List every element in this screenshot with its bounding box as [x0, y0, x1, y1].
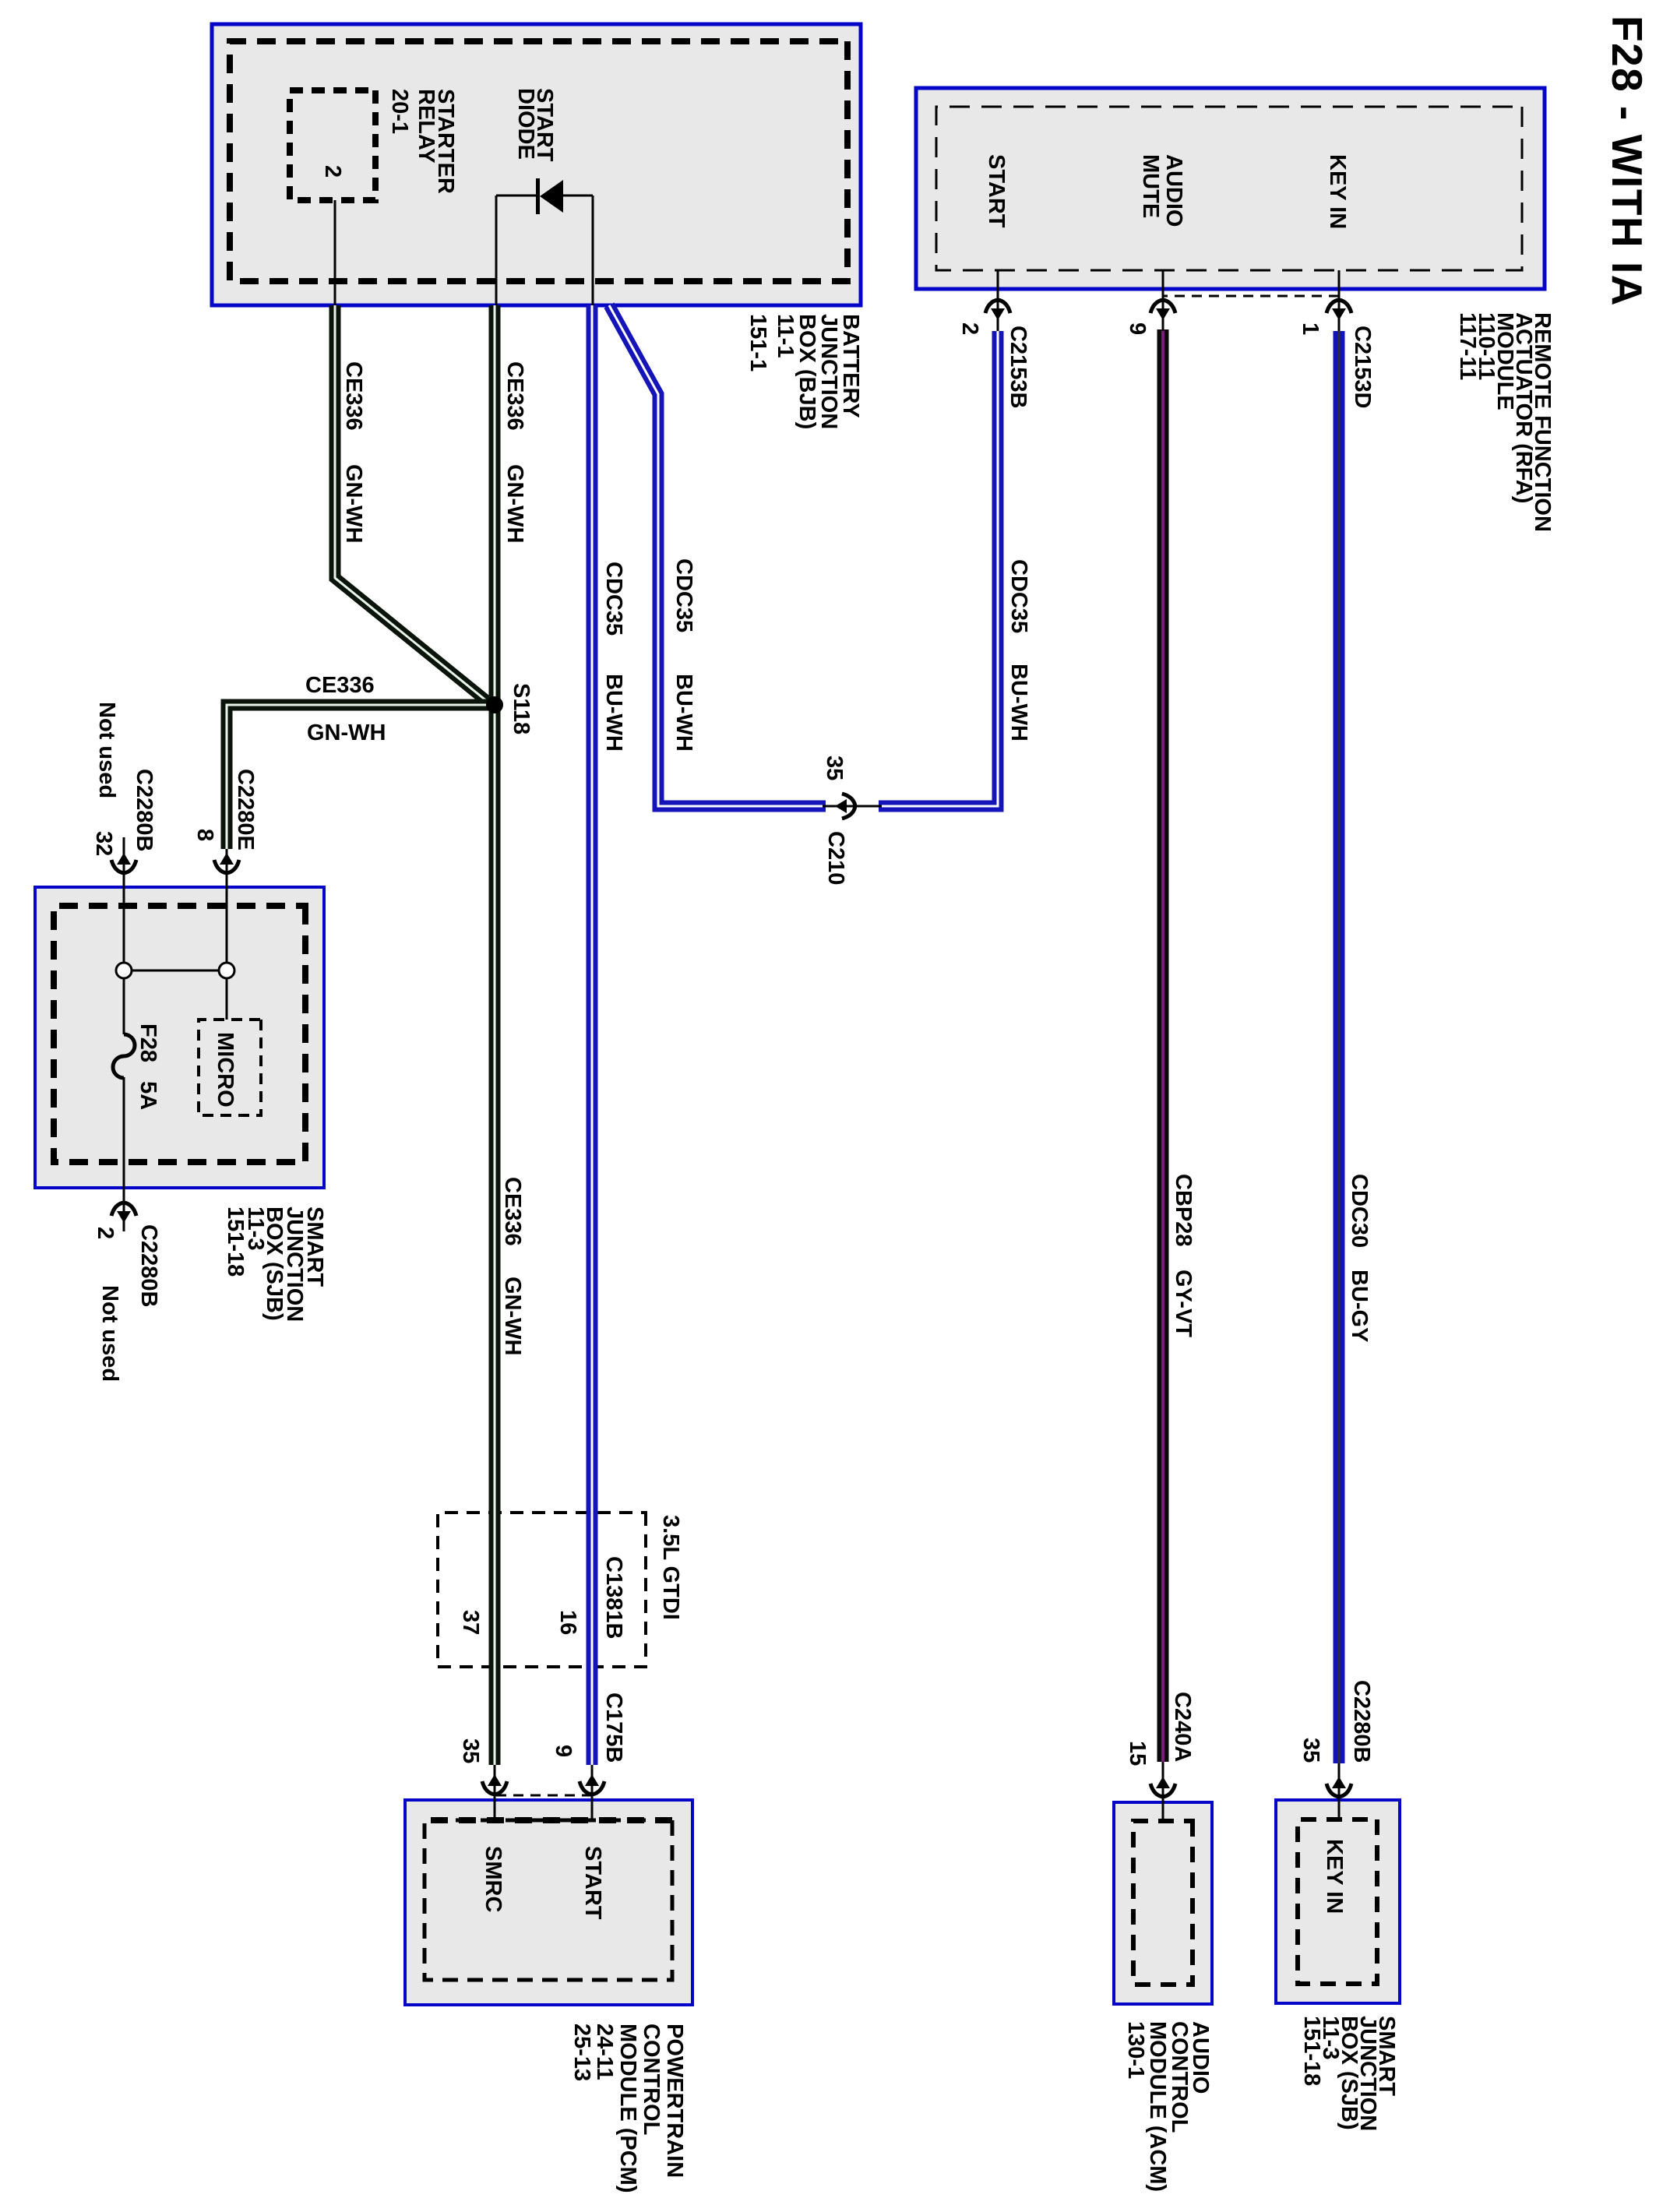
module SJB fuse box — [35, 887, 324, 1188]
wire GN-WH starter relay to S118 — [335, 305, 491, 705]
SJB (KEY IN) name label — [1299, 2016, 1399, 2131]
dashed connector bracket C2153 — [1163, 295, 1339, 298]
svg-text:151-18: 151-18 — [223, 1206, 248, 1277]
svg-text:MICRO: MICRO — [213, 1032, 238, 1108]
svg-text:C240A: C240A — [1170, 1692, 1195, 1762]
svg-text:MUTE: MUTE — [1138, 154, 1163, 218]
connector symbol C2153B pin 9 — [1150, 300, 1175, 320]
svg-text:S118: S118 — [509, 683, 534, 734]
svg-text:GN-WH: GN-WH — [500, 1277, 525, 1355]
module ACM box — [1114, 1802, 1212, 2004]
fuse F28 symbol — [113, 1034, 135, 1078]
wire RFA AUDIO MUTE pin stub — [1162, 270, 1164, 331]
svg-text:C210: C210 — [823, 831, 848, 885]
terminal circle upper — [219, 963, 234, 978]
RFA module name label — [1455, 312, 1555, 532]
svg-text:2: 2 — [320, 165, 345, 178]
svg-text:BOX (BJB): BOX (BJB) — [794, 314, 819, 429]
svg-text:C2280B: C2280B — [136, 1224, 161, 1307]
svg-text:16: 16 — [555, 1610, 580, 1635]
svg-text:8: 8 — [192, 829, 217, 841]
svg-text:32: 32 — [91, 831, 116, 856]
svg-text:C1381B: C1381B — [601, 1556, 626, 1639]
connector symbol C175B pin 35 — [482, 1774, 507, 1795]
svg-text:GN-WH: GN-WH — [307, 720, 386, 745]
MICRO dashed box — [199, 1020, 261, 1115]
wire GN-WH S118 to SJB fuse box — [227, 705, 495, 849]
svg-text:BU-GY: BU-GY — [1347, 1270, 1372, 1342]
svg-text:BU-WH: BU-WH — [601, 674, 626, 752]
svg-text:JUNCTION: JUNCTION — [816, 314, 841, 429]
svg-text:GY-VT: GY-VT — [1171, 1270, 1196, 1337]
svg-text:25-13: 25-13 — [569, 2024, 594, 2081]
svg-text:C175B: C175B — [601, 1692, 626, 1763]
PCM name label — [569, 2024, 687, 2193]
node S118 — [486, 696, 503, 713]
connector symbol C240A pin 15 — [1150, 1777, 1175, 1797]
svg-text:DIODE: DIODE — [513, 88, 538, 160]
connector symbol C2153B pin 2 — [985, 300, 1010, 320]
svg-text:9: 9 — [551, 1745, 576, 1757]
svg-text:CBP28: CBP28 — [1171, 1174, 1196, 1247]
starter relay dashed box — [290, 90, 375, 200]
svg-text:Not used: Not used — [94, 702, 119, 798]
wire relay pin2 to box edge — [334, 200, 336, 305]
SJB fuse box name label — [223, 1206, 327, 1322]
module RFA box — [916, 88, 1545, 289]
svg-text:2: 2 — [93, 1227, 118, 1239]
svg-text:151-18: 151-18 — [1299, 2016, 1324, 2086]
svg-text:C2153B: C2153B — [1006, 326, 1031, 408]
svg-text:BU-WH: BU-WH — [1006, 664, 1031, 741]
svg-text:MODULE (PCM): MODULE (PCM) — [615, 2024, 640, 2193]
inline connector C210 — [823, 805, 882, 808]
dashed connector bracket C175B — [495, 1795, 592, 1797]
svg-text:1: 1 — [1298, 322, 1323, 335]
wire RFA START pin stub — [997, 270, 999, 331]
svg-text:AUDIO: AUDIO — [1161, 154, 1186, 227]
svg-text:MODULE (ACM): MODULE (ACM) — [1145, 2021, 1170, 2192]
svg-text:KEY IN: KEY IN — [1325, 154, 1350, 229]
connector symbol C2153D pin 1 — [1326, 300, 1351, 320]
svg-text:GN-WH: GN-WH — [502, 464, 527, 543]
svg-text:F28 - WITH IA: F28 - WITH IA — [1603, 16, 1651, 307]
svg-text:C2153D: C2153D — [1350, 326, 1375, 408]
svg-text:START: START — [984, 154, 1009, 228]
start diode assembly — [496, 178, 593, 305]
wire between terminals — [124, 970, 227, 972]
connector symbol C2280B pin 35 — [1326, 1777, 1351, 1797]
svg-text:START: START — [580, 1846, 605, 1920]
wire AUDIO MUTE GY-VT RFA pin9 to ACM pin15 — [1157, 329, 1169, 1762]
svg-text:35: 35 — [458, 1738, 483, 1763]
connector symbol C2280E pin 8 — [214, 853, 239, 873]
ACM name label — [1123, 2021, 1213, 2192]
svg-text:GN-WH: GN-WH — [341, 464, 366, 543]
svg-text:9: 9 — [1125, 322, 1150, 335]
svg-text:35: 35 — [822, 756, 847, 780]
svg-text:Not used: Not used — [97, 1285, 122, 1382]
connector symbol C175B pin 9 — [580, 1774, 604, 1795]
svg-text:24-11: 24-11 — [592, 2024, 617, 2080]
wire KEY IN BU-GY RFA pin1 to SJB pin35 — [1334, 331, 1345, 1763]
starter relay label — [387, 89, 458, 194]
svg-text:RELAY: RELAY — [414, 89, 439, 164]
svg-text:151-1: 151-1 — [745, 314, 770, 372]
wire fuse row left section — [123, 837, 125, 1034]
svg-text:117-11: 117-11 — [1455, 312, 1480, 380]
wire stub into ACM — [1162, 1762, 1164, 1821]
svg-text:CONTROL: CONTROL — [1167, 2021, 1192, 2133]
svg-text:35: 35 — [1298, 1738, 1323, 1763]
svg-text:11-1: 11-1 — [773, 314, 798, 358]
svg-text:POWERTRAIN: POWERTRAIN — [662, 2024, 687, 2178]
wire stub into SJB KEY IN — [1338, 1763, 1341, 1819]
svg-text:CDC30: CDC30 — [1347, 1174, 1372, 1248]
svg-text:C2280E: C2280E — [233, 769, 258, 851]
wire BU-WH BJB to PCM pin9 — [587, 305, 598, 1765]
svg-text:20-1: 20-1 — [387, 89, 412, 134]
module BJB box — [212, 24, 861, 305]
3.5L GTDI dashed box — [438, 1513, 646, 1667]
BJB name label — [745, 314, 863, 429]
wire stub into PCM pin 35 — [494, 1765, 496, 1820]
svg-text:CDC35: CDC35 — [601, 562, 626, 636]
wire C2280E row into MICRO — [226, 847, 228, 1020]
wire fuse row right section — [123, 1077, 125, 1231]
connector symbol C2280B pin 2 — [111, 1203, 136, 1223]
svg-text:C2280B: C2280B — [132, 769, 157, 851]
svg-text:C2280B: C2280B — [1349, 1680, 1374, 1763]
svg-text:CDC35: CDC35 — [671, 558, 696, 632]
connector symbol C2280B pin 32 — [111, 853, 136, 873]
svg-text:CONTROL: CONTROL — [639, 2024, 664, 2135]
svg-text:KEY IN: KEY IN — [1322, 1839, 1347, 1914]
svg-text:BATTERY: BATTERY — [838, 314, 863, 418]
svg-text:CE336: CE336 — [305, 673, 375, 698]
svg-text:CDC35: CDC35 — [1006, 559, 1031, 633]
module PCM box — [405, 1800, 692, 2005]
svg-text:37: 37 — [458, 1610, 483, 1635]
wire START BU-WH RFA pin2 to C210 — [879, 331, 998, 806]
module SJB (KEY IN) box bottom-right — [1276, 1800, 1400, 2003]
svg-text:F28 5A: F28 5A — [136, 1023, 160, 1110]
svg-text:CE336: CE336 — [502, 361, 527, 431]
svg-text:2: 2 — [957, 322, 982, 335]
svg-text:BU-WH: BU-WH — [671, 674, 696, 752]
wire stub into PCM pin 9 — [591, 1765, 594, 1820]
wire BU-WH C210 to BJB — [609, 305, 826, 806]
wire GN-WH diode to PCM pin35 — [489, 305, 501, 1765]
wire RFA KEY IN pin stub — [1338, 270, 1341, 331]
svg-text:CE336: CE336 — [341, 361, 366, 431]
svg-text:SMRC: SMRC — [481, 1846, 506, 1912]
svg-text:15: 15 — [1125, 1741, 1150, 1766]
svg-text:3.5L GTDI: 3.5L GTDI — [658, 1515, 683, 1620]
svg-text:130-1: 130-1 — [1123, 2021, 1148, 2079]
svg-text:CE336: CE336 — [500, 1177, 525, 1246]
terminal circle lower — [116, 963, 132, 978]
